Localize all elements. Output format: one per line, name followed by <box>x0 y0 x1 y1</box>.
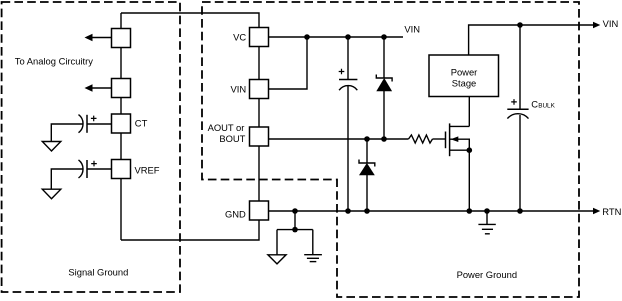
wire: GND pin ground branch <box>294 211 296 230</box>
junction C_BULK bottom on RTN <box>517 208 523 214</box>
pin square (to analog circuitry, upper) <box>112 29 131 48</box>
wire: C_BULK top <box>519 25 521 109</box>
label: Power Stage <box>451 66 478 88</box>
label: To Analog Circuitry <box>15 56 93 67</box>
power ground boundary (dashed polygon) <box>202 2 579 297</box>
wire: VIN bypass cap top <box>347 37 349 80</box>
wire: left pin column vertical <box>120 13 122 240</box>
label: VREF <box>135 164 160 175</box>
junction Q1 source/body <box>467 147 473 153</box>
capacitor (CT bypass), polarized <box>79 115 97 133</box>
pin square (to analog circuitry, lower) <box>112 79 131 98</box>
label: RTN <box>602 206 621 217</box>
wire: VREF column bottom to GND pin bottom <box>121 220 259 240</box>
junction Q1 source on RTN <box>467 208 473 214</box>
zener diode D1 (VIN clamp) <box>376 75 392 92</box>
svg-text:C: C <box>531 99 538 110</box>
junction ground T <box>292 227 298 233</box>
wire: VC pin to VIN net <box>269 36 404 38</box>
arrow to analog circuitry (lower) <box>85 84 112 91</box>
svg-text:VIN: VIN <box>404 23 420 34</box>
wire: Q1 source to RTN <box>468 150 470 211</box>
label: VIN (right net) <box>603 18 619 29</box>
wire: D1 bottom to AOUT wire <box>383 91 385 139</box>
wire: IC pin column vertical (VC-VIN-AOUT-GND) <box>258 47 260 202</box>
svg-text:Power: Power <box>451 66 478 77</box>
wire: power stage top to VIN output <box>469 25 597 55</box>
junction D1 top <box>381 34 387 40</box>
junction GND branch on RTN <box>292 208 298 214</box>
svg-text:BULK: BULK <box>538 103 555 110</box>
wire: to signal ground triangle <box>276 230 278 255</box>
earth ground symbol (GND branch) <box>304 255 322 262</box>
junction C_BULK top <box>517 22 523 28</box>
label: AOUT or BOUT <box>208 122 246 144</box>
junction cap top <box>345 34 351 40</box>
svg-text:VC: VC <box>233 32 246 43</box>
wire: RTN rail <box>269 210 597 212</box>
svg-text:To Analog Circuitry: To Analog Circuitry <box>15 56 93 67</box>
wire: C_BULK bottom to RTN <box>519 115 521 211</box>
junction earth on RTN <box>484 208 490 214</box>
earth ground symbol (RTN) <box>478 224 495 233</box>
svg-text:Power Ground: Power Ground <box>457 269 517 280</box>
svg-text:AOUT or: AOUT or <box>208 122 245 133</box>
pin square VC <box>250 28 269 47</box>
pin square VIN <box>250 80 269 99</box>
wire: VIN bypass cap bottom to RTN <box>347 86 349 211</box>
transistor Q1 (N-MOSFET) <box>446 123 470 156</box>
arrow to analog circuitry (upper) <box>85 34 112 41</box>
signal ground symbol (CT) <box>42 142 61 152</box>
svg-text:Stage: Stage <box>452 78 477 89</box>
pin square CT <box>112 114 131 133</box>
zener diode D2 (gate clamp) <box>359 160 375 176</box>
signal ground boundary (dashed box) <box>2 2 180 292</box>
arrow RTN output <box>593 208 600 215</box>
wire: VREF capacitor to ground <box>51 169 82 189</box>
wire: zener D1 top <box>383 37 385 78</box>
label: VC <box>233 32 246 43</box>
junction VIN cap bottom on RTN <box>345 208 351 214</box>
capacitor (VIN bypass), polarized <box>339 69 358 91</box>
wire: VREF pin to bypass capacitor <box>87 168 112 170</box>
svg-text:BOUT: BOUT <box>219 133 245 144</box>
label: Signal Ground <box>68 267 128 278</box>
junction D1 bottom on AOUT wire <box>381 136 387 142</box>
wire: VIN pin up to VC wire <box>269 37 308 89</box>
pin square AOUT/BOUT <box>250 127 269 146</box>
wire: zener D2 top <box>366 139 368 163</box>
wire: AOUT/BOUT pin to gate resistor <box>269 138 409 140</box>
wire: RTN earth stub <box>486 211 488 224</box>
svg-text:RTN: RTN <box>602 206 621 217</box>
wire: Q1 drain to power stage <box>468 97 470 127</box>
svg-text:VIN: VIN <box>231 84 247 95</box>
label: Power Ground <box>457 269 517 280</box>
junction VC/VIN <box>304 34 310 40</box>
wire: resistor to gate <box>433 138 446 140</box>
label: C_BULK <box>531 99 555 110</box>
wire: CT pin to bypass capacitor <box>87 123 112 125</box>
wire: ground T horizontal <box>277 229 313 231</box>
label: VIN (top middle net) <box>404 23 420 34</box>
pin square VREF <box>112 160 131 179</box>
junction D2 bottom on RTN <box>364 208 370 214</box>
svg-text:VREF: VREF <box>135 164 160 175</box>
svg-text:Signal Ground: Signal Ground <box>68 267 128 278</box>
signal ground symbol (GND branch) <box>268 255 286 264</box>
capacitor C_BULK, polarized <box>507 99 528 119</box>
label: VIN (pin) <box>231 84 247 95</box>
signal ground symbol (VREF) <box>42 189 61 199</box>
arrow VIN output <box>593 22 600 29</box>
svg-text:CT: CT <box>135 117 148 128</box>
svg-text:VIN: VIN <box>603 18 619 29</box>
junction D2 top on AOUT wire <box>364 136 370 142</box>
power stage block <box>429 55 499 97</box>
pin square GND <box>250 201 269 220</box>
capacitor (VREF bypass), polarized <box>79 160 97 178</box>
label: CT <box>135 117 148 128</box>
label: GND <box>225 208 246 219</box>
wire: top from left column to VC pin <box>121 13 259 28</box>
wire: D2 bottom to RTN <box>366 175 368 211</box>
wire: CT capacitor to ground <box>51 124 82 141</box>
resistor (gate) <box>409 135 433 143</box>
wire: to earth ground <box>312 230 314 254</box>
svg-text:GND: GND <box>225 208 246 219</box>
